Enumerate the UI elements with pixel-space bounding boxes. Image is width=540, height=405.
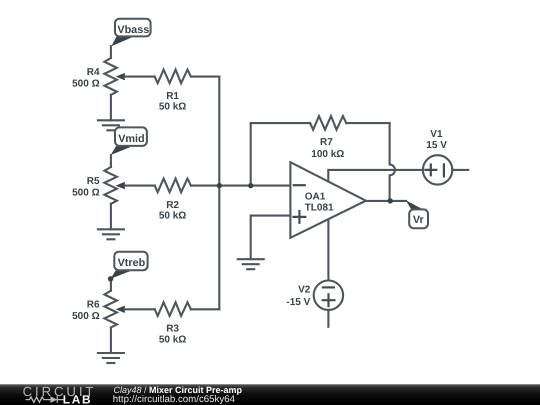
svg-text:50 kΩ: 50 kΩ: [159, 334, 186, 345]
svg-text:R5: R5: [87, 176, 100, 187]
svg-text:15 V: 15 V: [426, 140, 447, 151]
svg-text:R1: R1: [166, 91, 179, 102]
svg-text:OA1: OA1: [305, 191, 326, 202]
svg-text:R3: R3: [166, 324, 179, 335]
svg-text:-15 V: -15 V: [286, 297, 310, 308]
svg-text:Vr: Vr: [413, 214, 425, 226]
svg-text:R6: R6: [87, 300, 100, 311]
svg-text:TL081: TL081: [305, 202, 334, 213]
svg-text:LAB: LAB: [63, 392, 93, 405]
svg-text:50 kΩ: 50 kΩ: [159, 211, 186, 222]
svg-text:Vbass: Vbass: [117, 24, 149, 36]
svg-text:R2: R2: [166, 200, 179, 211]
svg-text:V2: V2: [298, 285, 311, 296]
svg-text:500 Ω: 500 Ω: [72, 187, 99, 198]
svg-text:100 kΩ: 100 kΩ: [311, 149, 344, 160]
svg-text:500 Ω: 500 Ω: [72, 311, 99, 322]
svg-text:R7: R7: [320, 137, 333, 148]
svg-text:50 kΩ: 50 kΩ: [159, 102, 186, 113]
svg-text:Vmid: Vmid: [118, 133, 144, 145]
svg-text:Vtreb: Vtreb: [118, 257, 146, 269]
svg-text:V1: V1: [430, 129, 443, 140]
svg-text:http://circuitlab.com/c65ky64: http://circuitlab.com/c65ky64: [113, 394, 236, 405]
svg-text:R4: R4: [87, 67, 100, 78]
svg-text:500 Ω: 500 Ω: [72, 78, 99, 89]
